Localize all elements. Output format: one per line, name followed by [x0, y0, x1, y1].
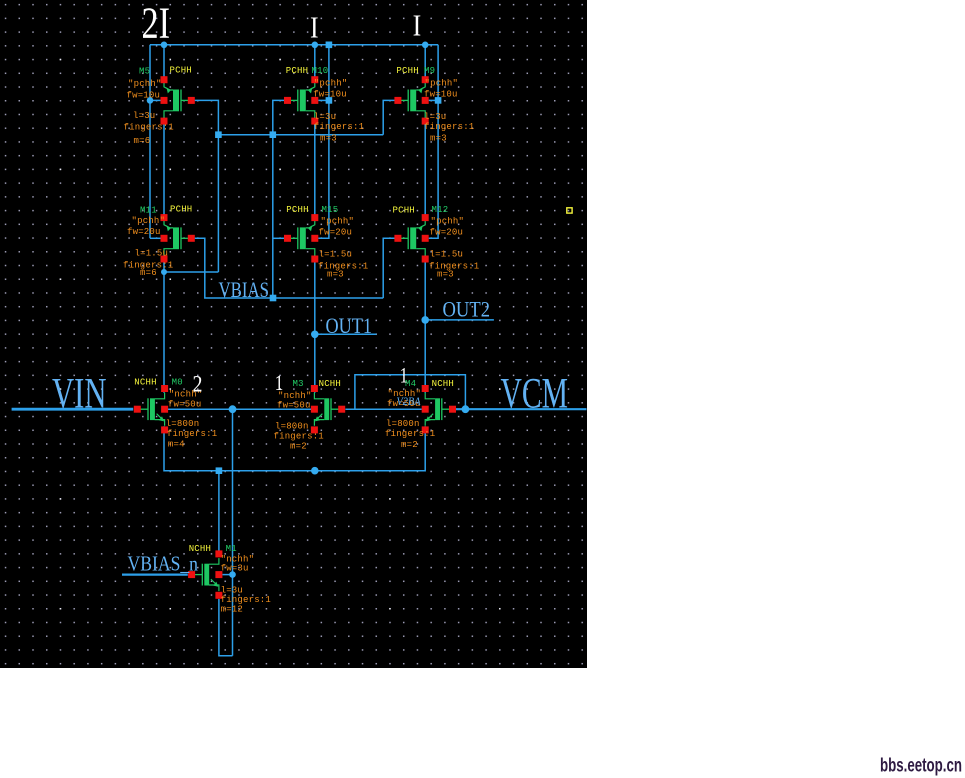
M10 pin B [311, 97, 318, 104]
svg-text:l=3u: l=3u [314, 112, 336, 122]
wire M12 drain to M4 drain OUT2 column [424, 255, 426, 392]
M4 pin G [449, 406, 456, 413]
wire M3 gate over-route to VCM [355, 375, 466, 409]
junction rail-M9 [422, 42, 429, 49]
wire M5 bulk stub [150, 99, 161, 101]
svg-text:M0: M0 [172, 378, 183, 388]
wire OUT1 stub [315, 333, 377, 335]
svg-text:"pchh": "pchh" [431, 216, 465, 226]
junction M11 drain / node VBIAS tap [161, 269, 167, 275]
wire M11 drain to bias riser [164, 271, 218, 273]
svg-text:M11: M11 [140, 205, 157, 215]
svg-text:fw=10u: fw=10u [424, 90, 458, 100]
svg-text:m=4: m=4 [168, 439, 185, 449]
labels M5 [124, 65, 192, 145]
svg-text:fingers:1: fingers:1 [167, 429, 217, 439]
svg-text:fingers:1: fingers:1 [274, 431, 324, 441]
wire M9 drain to M12 source [424, 117, 426, 221]
svg-text:fw=3u: fw=3u [221, 563, 249, 573]
M12 pin S [422, 214, 429, 221]
wire rail to M10 source [314, 45, 316, 84]
M0 pin B [161, 406, 168, 413]
wire M5 drain to M11 source [163, 117, 165, 221]
wire VDD rail [150, 44, 438, 46]
M9 pin D [422, 118, 429, 125]
wire M10 drain to M15 source [314, 117, 316, 221]
svg-text:2I: 2I [142, 0, 171, 48]
svg-text:2: 2 [193, 372, 203, 398]
svg-text:1: 1 [400, 362, 408, 387]
svg-text:M5: M5 [139, 66, 150, 76]
M10 pin G [284, 97, 291, 104]
junction node OUT1 [311, 331, 319, 339]
svg-text:fw=10u: fw=10u [313, 90, 347, 100]
svg-text:fingers:1: fingers:1 [385, 429, 435, 439]
M9 pin S [422, 76, 429, 83]
svg-text:m=2: m=2 [290, 442, 307, 452]
svg-text:PCHH: PCHH [396, 66, 418, 76]
svg-text:I: I [413, 8, 422, 43]
wire M9 gate riser [383, 100, 394, 134]
M12 pin D [422, 256, 429, 263]
svg-text:"pchh": "pchh" [132, 216, 166, 226]
svg-text:"pchh": "pchh" [314, 78, 348, 88]
svg-text:VBIAS_n: VBIAS_n [128, 552, 199, 576]
wire tail to M1 drain [218, 471, 220, 554]
svg-text:NCHH: NCHH [432, 379, 454, 389]
svg-text:M1: M1 [226, 544, 237, 554]
wire bias bus [218, 134, 383, 136]
wire M9 bulk stub [429, 99, 438, 101]
svg-text:l=1.5u: l=1.5u [430, 249, 464, 259]
wire VIN input [12, 408, 134, 411]
svg-text:l=800n: l=800n [275, 421, 309, 431]
svg-text:m=3: m=3 [430, 134, 447, 144]
M12 pin B [422, 235, 429, 242]
labels M1 [189, 544, 271, 615]
transistor M3 (NMOS NCHH) [314, 393, 341, 426]
svg-text:fingers:1: fingers:1 [124, 122, 174, 132]
svg-text:m=6: m=6 [140, 268, 157, 278]
svg-text:l=3u: l=3u [424, 112, 446, 122]
svg-text:l=800n: l=800n [166, 419, 200, 429]
svg-text:PCHH: PCHH [393, 205, 415, 215]
M11 pin S [161, 214, 168, 221]
wire VBIAS net [195, 238, 384, 298]
M5 pin S [161, 76, 168, 83]
M9 pin G [394, 97, 401, 104]
M1 pin B [215, 571, 222, 578]
wire M12 gate riser [383, 238, 394, 298]
labels M9 [396, 66, 474, 144]
svg-text:m=3: m=3 [327, 269, 344, 279]
svg-text:l=800n: l=800n [386, 419, 420, 429]
transistor M1 (NMOS NCHH) [192, 558, 219, 591]
wire rail to M9 source [424, 45, 426, 84]
svg-text:fw=50u: fw=50u [168, 399, 202, 409]
svg-text:m=12: m=12 [221, 605, 243, 615]
svg-text:l=1.5u: l=1.5u [319, 249, 353, 259]
svg-text:OUT1: OUT1 [326, 313, 373, 338]
M3 pin G [338, 406, 345, 413]
svg-text:m=2: m=2 [401, 440, 418, 450]
M11 pin G [188, 235, 195, 242]
wire M5 gate riser [195, 100, 219, 272]
junction rail-middle bulk [326, 42, 333, 49]
svg-text:VCM: VCM [501, 370, 569, 417]
M5 pin G [188, 97, 195, 104]
svg-text:fingers:1: fingers:1 [221, 595, 271, 605]
wire VCM input [456, 408, 587, 410]
svg-text:fw=20u: fw=20u [430, 227, 464, 237]
transistor M5 (PMOS PCHH) [164, 83, 191, 117]
transistor M12 (PMOS PCHH) [398, 221, 425, 255]
labels M10 [286, 66, 364, 144]
svg-text:fingers:1: fingers:1 [424, 122, 474, 132]
svg-text:PCHH: PCHH [286, 205, 308, 215]
svg-text:V2BA: V2BA [397, 394, 422, 408]
wire M10 gate riser [273, 100, 284, 298]
wire M15 gate stub [273, 237, 284, 239]
wire M1 bulk stub [222, 574, 232, 576]
svg-text:NCHH: NCHH [134, 378, 156, 388]
transistor M4 (NMOS NCHH) [425, 393, 452, 426]
junction M5 bulk [147, 97, 154, 104]
junction VBIAS line [270, 295, 277, 302]
wire OUT2 stub [425, 319, 494, 321]
M1 pin G [188, 571, 195, 578]
junction VCM gate node [462, 405, 470, 413]
wire left bulk line [149, 45, 151, 239]
junction M10 bulk tap [326, 97, 333, 104]
wire tail node [164, 426, 425, 471]
M15 pin G [284, 235, 291, 242]
svg-text:VBIAS: VBIAS [219, 277, 270, 302]
M4 pin B [422, 406, 429, 413]
svg-text:OUT2: OUT2 [443, 297, 491, 322]
wire VBIAS_n input [122, 573, 188, 575]
transistor M10 (PMOS PCHH) [288, 83, 315, 117]
svg-text:1: 1 [275, 370, 284, 395]
svg-text:l=1.5u: l=1.5u [135, 248, 169, 258]
yellow marker square [567, 208, 572, 213]
junction rail-M10 [312, 42, 319, 49]
labels M15 [286, 205, 368, 280]
wire rail to M5 source [163, 45, 165, 84]
junction node OUT2 [421, 316, 429, 324]
M9 pin B [422, 97, 429, 104]
junction bias bus mid [270, 131, 277, 138]
M4 pin S [422, 426, 429, 433]
M0 pin D [161, 385, 168, 392]
svg-text:PCHH: PCHH [286, 66, 308, 76]
svg-text:l=3u: l=3u [221, 585, 243, 595]
svg-text:I: I [310, 10, 319, 45]
svg-text:fw=50u: fw=50u [277, 401, 311, 411]
svg-text:"pchh": "pchh" [425, 78, 459, 88]
wire bulk/source vertical [232, 409, 234, 656]
wire M11 bulk stub [150, 237, 161, 239]
labels M12 [393, 205, 480, 280]
svg-text:m=3: m=3 [437, 269, 454, 279]
M11 pin D [161, 256, 168, 263]
labels M0 [134, 378, 217, 450]
wire bulk rail M3-M4 [345, 408, 421, 410]
wire bulk rail M0-M3 [168, 408, 312, 410]
svg-text:l=3u: l=3u [133, 111, 155, 121]
wire right bulk line [429, 45, 438, 239]
M1 pin D [215, 550, 222, 557]
svg-text:M3: M3 [293, 379, 304, 389]
svg-text:VIN: VIN [52, 370, 107, 417]
junction bulk rail [229, 405, 237, 413]
M3 pin B [311, 406, 318, 413]
labels M4 [385, 379, 454, 450]
transistor M15 (PMOS PCHH) [288, 221, 315, 255]
svg-text:M12: M12 [432, 205, 449, 215]
svg-text:m=6: m=6 [134, 136, 151, 146]
M10 pin D [311, 118, 318, 125]
wire M15 drain to M3 drain OUT1 column [314, 255, 316, 392]
wire M1 source loop [219, 599, 233, 656]
M0 pin S [161, 426, 168, 433]
M3 pin D [311, 385, 318, 392]
junction M3 source to tail [311, 467, 319, 475]
M15 pin B [311, 235, 318, 242]
M5 pin B [161, 97, 168, 104]
svg-text:M10: M10 [312, 66, 329, 76]
junction rail-M5 [161, 42, 168, 49]
junction bias bus left [215, 131, 222, 138]
svg-text:NCHH: NCHH [319, 379, 341, 389]
wire M11 drain to M0 drain [163, 255, 165, 392]
junction M9 bulk tap [435, 97, 442, 104]
svg-text:"pchh": "pchh" [128, 79, 162, 89]
svg-text:"pchh": "pchh" [321, 216, 355, 226]
wire middle bulk line [318, 45, 329, 239]
svg-text:M9: M9 [424, 66, 435, 76]
junction M1 bulk [229, 571, 236, 578]
svg-text:bbs.eetop.cn: bbs.eetop.cn [880, 756, 962, 777]
junction tail-M1 [216, 467, 223, 474]
M0 pin G [134, 406, 141, 413]
svg-text:m=3: m=3 [320, 134, 337, 144]
M12 pin G [394, 235, 401, 242]
transistor M0 (NMOS NCHH) [137, 393, 164, 426]
M5 pin D [161, 118, 168, 125]
svg-text:M15: M15 [322, 205, 339, 215]
transistor M11 (PMOS PCHH) [164, 221, 191, 255]
labels M3 [274, 379, 342, 452]
M3 pin S [311, 426, 318, 433]
wire M10 bulk stub [318, 99, 329, 101]
M15 pin D [311, 256, 318, 263]
M4 pin D [422, 385, 429, 392]
svg-text:fw=20u: fw=20u [127, 227, 161, 237]
svg-text:fingers:1: fingers:1 [314, 122, 364, 132]
M1 pin S [215, 592, 222, 599]
transistor M9 (PMOS PCHH) [398, 83, 425, 117]
M10 pin S [311, 76, 318, 83]
M11 pin B [161, 235, 168, 242]
M15 pin S [311, 214, 318, 221]
svg-text:PCHH: PCHH [170, 204, 192, 214]
svg-text:fw=10u: fw=10u [127, 90, 161, 100]
svg-text:fw=20u: fw=20u [319, 227, 353, 237]
labels M11 [123, 204, 192, 278]
svg-text:PCHH: PCHH [170, 65, 192, 75]
